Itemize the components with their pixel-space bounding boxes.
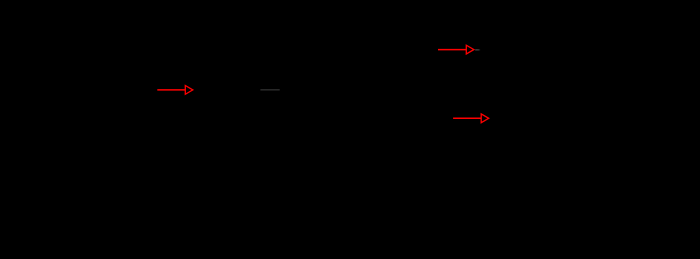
signal-flow arrow 2 (upper output, red) [438, 45, 474, 54]
transistor Q1 [280, 60, 310, 120]
wire node B [310, 49, 438, 51]
resistor Rsig [60, 85, 150, 95]
wire [200, 89, 260, 91]
resistor RC [305, 5, 315, 60]
voltage source Vsig [46, 90, 74, 150]
signal-flow arrow 3 (lower output, red) [453, 114, 489, 123]
wire stub (gray) after arrow 2 [475, 49, 480, 51]
ground [300, 120, 320, 148]
wire (gray) node X [260, 89, 279, 91]
signal-flow arrow 1 (input, red) [157, 86, 193, 95]
node A [198, 88, 202, 92]
wire node C [380, 117, 453, 119]
wire [150, 89, 157, 91]
